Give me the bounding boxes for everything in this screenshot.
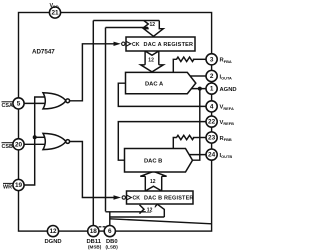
wire IOUTA to pin 2: [190, 75, 206, 77]
DAC A: [126, 72, 196, 93]
wire RFBB to pin 23: [193, 137, 206, 139]
clock triangle register A: [126, 41, 131, 46]
svg-text:CSB: CSB: [2, 144, 13, 150]
wire bus register A to DAC A shaft right: [158, 51, 160, 65]
wire bus notch tail bottom: [140, 205, 145, 214]
svg-text:AGND: AGND: [220, 87, 237, 93]
register U2 DAC B REGISTER: [127, 191, 194, 204]
wire gate G1 output to DAC A register clock: [69, 44, 113, 101]
wire VREFA pin 4 to DAC A: [118, 83, 206, 106]
wire resistor RFBA stub from DAC A: [173, 59, 177, 72]
wire bus register A to DAC A shaft left: [144, 51, 146, 65]
wire bus notch register A bottom: [145, 51, 159, 55]
svg-text:6: 6: [108, 228, 112, 235]
svg-text:VREFB: VREFB: [220, 120, 235, 126]
svg-text:VREFA: VREFA: [220, 105, 234, 111]
svg-text:19: 19: [15, 182, 23, 189]
svg-text:DGND: DGND: [45, 239, 62, 245]
svg-text:20: 20: [15, 141, 23, 148]
svg-text:23: 23: [208, 135, 216, 142]
wire bus notch top: [144, 21, 149, 28]
pin 21 VDD: [49, 7, 60, 18]
wire bus register B to DAC B shaft right: [161, 176, 163, 191]
clock bubble register A: [122, 42, 125, 45]
pin 4 VREFA: [206, 101, 217, 112]
gate G2 NOR (CSB,WR): [43, 133, 66, 149]
wire bus notch register B top: [145, 186, 161, 191]
pin 18 DB11: [88, 226, 99, 237]
svg-text:CSA: CSA: [2, 103, 13, 109]
wire CSA pin5 to gate G1: [24, 102, 45, 104]
svg-text:IOUTA: IOUTA: [220, 74, 233, 80]
gate G1 NOR (CSA,WR): [43, 93, 66, 109]
wire top bus upper edge: [93, 20, 159, 22]
overline CSB: [2, 142, 14, 144]
svg-text:CK: CK: [132, 42, 140, 48]
node AGND junction: [198, 87, 202, 91]
overline CSA: [2, 101, 14, 103]
pin 12 DGND: [47, 226, 58, 237]
svg-text:DAC B: DAC B: [144, 159, 162, 165]
wire data bus right edge: [105, 28, 107, 212]
overline WR: [3, 182, 13, 184]
svg-text:3: 3: [210, 56, 214, 63]
pin 19 WR: [13, 179, 24, 190]
pin 2 IOUTA: [206, 70, 217, 81]
svg-text:RFBA: RFBA: [220, 58, 232, 64]
svg-text:WR: WR: [3, 185, 12, 191]
svg-text:2: 2: [210, 73, 214, 80]
svg-text:(LSB): (LSB): [106, 245, 119, 250]
pin 20 CSB: [13, 139, 24, 150]
wire bus arrow into DAC A register top: [144, 21, 164, 37]
resistor RFBB: [177, 135, 194, 139]
svg-text:5: 5: [17, 101, 21, 108]
wire bottom bus upper edge and arrow into DAC B register: [106, 204, 165, 217]
svg-text:24: 24: [208, 152, 216, 159]
pin 22 VREFB: [206, 116, 217, 127]
svg-text:22: 22: [208, 119, 216, 126]
wire IOUTB to pin 24: [189, 154, 206, 156]
wire WR pin19 to gates: [24, 97, 45, 185]
svg-text:DAC A REGISTER: DAC A REGISTER: [144, 42, 194, 48]
svg-text:12: 12: [49, 228, 57, 235]
wire gate G2 output to DAC B register clock: [69, 142, 113, 198]
wire RFBA to pin 3: [193, 58, 206, 60]
svg-text:12: 12: [147, 207, 153, 213]
clock bubble register B: [122, 196, 125, 199]
svg-text:12: 12: [148, 58, 154, 64]
wire WR branch to gate G2: [35, 136, 47, 138]
wire bus arrow into DAC B bottom: [140, 171, 166, 176]
chip outline: [19, 13, 212, 232]
resistor RFBA: [177, 57, 194, 61]
pin 5 CSA: [13, 98, 24, 109]
node WR junction: [33, 135, 37, 139]
wire VREFB pin 22 to DAC B: [118, 122, 206, 161]
svg-text:CK: CK: [133, 196, 141, 202]
pin 6 DB0: [104, 226, 115, 237]
label bus width 12 bottom: [146, 206, 155, 212]
svg-text:1: 1: [210, 86, 214, 93]
svg-text:(MSB): (MSB): [88, 245, 102, 250]
DAC B: [125, 149, 193, 173]
arrowhead clock B: [114, 195, 122, 199]
wire data bus to right edge: [110, 219, 212, 224]
bus break dashes between pin 18 and pin 6: [99, 226, 106, 228]
arrowhead clock A: [114, 42, 121, 46]
wire bottom bus lower edge: [110, 216, 165, 218]
pin 24 IOUTB: [206, 149, 217, 160]
pin 1 AGND: [206, 83, 217, 94]
svg-text:18: 18: [90, 228, 98, 235]
wire DB0 pin6 riser: [109, 212, 111, 226]
wire top bus lower edge: [106, 27, 149, 29]
pin 23 RFBB: [206, 132, 217, 143]
wire resistor RFBB stub from DAC B: [173, 138, 177, 149]
svg-text:21: 21: [51, 10, 59, 17]
gate G1 output bubble: [66, 99, 70, 103]
wire bus arrow into DAC A: [141, 65, 164, 72]
svg-text:AD7547: AD7547: [32, 49, 55, 56]
wire AGND down to DAC B tip: [193, 89, 200, 161]
svg-text:4: 4: [210, 104, 214, 111]
svg-text:VDD: VDD: [50, 3, 59, 9]
svg-text:DAC A: DAC A: [145, 81, 164, 87]
pin 3 RFBA: [206, 54, 217, 65]
svg-text:12: 12: [150, 22, 156, 28]
gate G2 output bubble: [66, 140, 70, 144]
wire data bus left edge: [92, 21, 94, 226]
wire AGND to pin 1: [190, 88, 207, 90]
svg-text:IOUTB: IOUTB: [220, 153, 233, 159]
register U1 DAC A REGISTER: [126, 37, 195, 51]
wire CSB pin20 to gate G2: [24, 143, 46, 145]
svg-text:DAC B REGISTER: DAC B REGISTER: [144, 196, 194, 202]
svg-text:RFBB: RFBB: [220, 136, 232, 142]
clock triangle register B: [127, 195, 132, 200]
svg-text:12: 12: [150, 179, 156, 185]
wire bus register B to DAC B shaft left: [144, 176, 146, 191]
